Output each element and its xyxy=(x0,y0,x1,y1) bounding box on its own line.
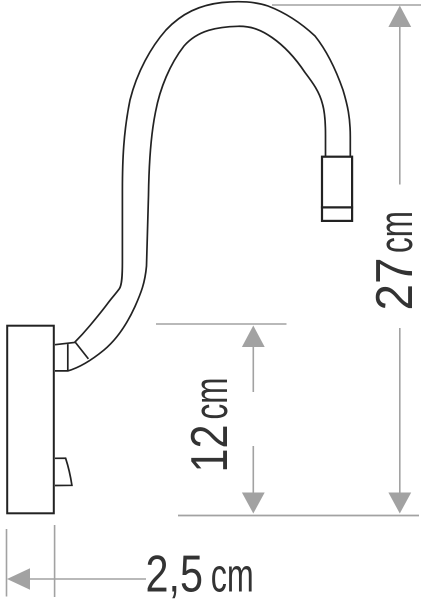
lamp head cap line xyxy=(321,206,353,208)
gooseneck arm: inner edge xyxy=(55,26,326,371)
dimension 2,5 cm: right extension line xyxy=(54,525,56,597)
dimension 27 cm: vertical line upper segment xyxy=(399,27,401,185)
dimension 27 cm: down arrow xyxy=(388,493,411,514)
dimension 27 cm: vertical line lower segment xyxy=(399,328,401,494)
label 2,5 cm xyxy=(146,546,254,600)
svg-text:12: 12 xyxy=(181,425,239,473)
svg-text:2,5: 2,5 xyxy=(146,546,204,600)
gooseneck base segment divider 2 xyxy=(75,342,88,359)
svg-text:cm: cm xyxy=(211,549,254,600)
dimension 12 cm: up arrow xyxy=(242,326,265,348)
gooseneck base segment divider 1 xyxy=(67,344,69,371)
svg-text:27: 27 xyxy=(366,258,424,311)
switch knob xyxy=(55,458,72,485)
dimension 2,5 cm: horizontal line xyxy=(29,578,146,580)
dimension 27 cm: top extension line xyxy=(272,4,421,6)
dimension 2,5 cm: left arrow xyxy=(7,568,30,590)
dimension 12 cm: down arrow xyxy=(242,493,265,514)
lamp head body xyxy=(322,157,352,221)
bottom reference line xyxy=(178,515,419,517)
wall mount plate xyxy=(7,326,54,514)
gooseneck arm: white body fill xyxy=(55,2,350,371)
dimension 12 cm: vertical line upper segment xyxy=(252,346,254,392)
dimension 27 cm: up arrow xyxy=(388,6,411,28)
label 12 cm (rotated) xyxy=(181,378,239,473)
label 27 cm (rotated) xyxy=(366,211,424,311)
svg-text:cm: cm xyxy=(184,378,237,420)
dimension 2,5 cm: left extension line xyxy=(6,529,8,597)
dimension 12 cm: top extension line xyxy=(156,323,287,325)
gooseneck arm: outer edge xyxy=(55,2,350,345)
svg-text:cm: cm xyxy=(369,211,422,253)
dimension 12 cm: vertical line lower segment xyxy=(252,446,254,493)
